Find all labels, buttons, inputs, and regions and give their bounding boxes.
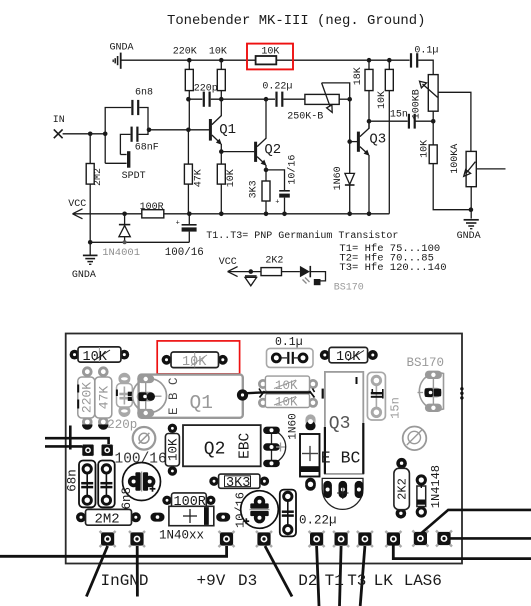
node rail 1N4001 [122, 212, 127, 217]
svg-text:10K: 10K [336, 350, 361, 365]
node gnd 2M2 [88, 240, 93, 245]
svg-text:E B C: E B C [167, 377, 181, 415]
node 220p left [186, 97, 191, 102]
svg-text:15n: 15n [390, 110, 408, 121]
svg-text:2K2: 2K2 [396, 478, 410, 500]
svg-text:68nF: 68nF [135, 143, 159, 154]
PCB text 100/16 [115, 452, 167, 468]
svg-text:GNDA: GNDA [110, 42, 134, 53]
svg-text:GNDA: GNDA [72, 270, 96, 281]
PCB pad small left1 [82, 445, 93, 456]
PCB resistor 3K3 [209, 474, 269, 491]
wire LK lead [393, 545, 531, 559]
wire led branch [228, 271, 300, 273]
resistor 10K (Q1 collector) [209, 46, 227, 99]
svg-text:15n: 15n [389, 397, 403, 419]
PCB resistor 10K r1 [70, 347, 130, 365]
PCB capacitor 68n [65, 461, 95, 508]
svg-text:Q1: Q1 [190, 392, 213, 414]
svg-text:EBC: EBC [238, 432, 254, 458]
svg-text:10/16: 10/16 [287, 155, 299, 185]
svg-text:0.1µ: 0.1µ [275, 336, 303, 349]
svg-text:Q1: Q1 [219, 122, 236, 138]
PCB board outline [66, 334, 462, 564]
PCB transistor BS170 footprint [418, 371, 444, 412]
text T3 [347, 572, 366, 590]
svg-text:220K: 220K [173, 46, 197, 57]
resistor 220K [173, 46, 197, 129]
PCB diode 1N4148 [416, 465, 443, 518]
svg-text:6n8: 6n8 [135, 88, 153, 99]
text LA [404, 572, 424, 590]
ground GNDA right [464, 220, 479, 229]
text LK [374, 572, 394, 590]
svg-text:T3= Hfe 120...140: T3= Hfe 120...140 [339, 262, 446, 274]
node rail 47K [187, 212, 192, 217]
svg-text:BS170: BS170 [407, 356, 445, 370]
transistor Q2 [256, 99, 282, 181]
PCB transistor Q2 footprint [263, 427, 286, 468]
svg-text:1N60: 1N60 [287, 413, 299, 439]
PCB pad T1 [333, 531, 349, 547]
svg-text:SPDT: SPDT [122, 171, 146, 182]
node Q1 collector [219, 97, 224, 102]
wire D3 lead [265, 546, 292, 597]
wire D2 lead [317, 546, 319, 606]
capacitor 0.22u [262, 82, 292, 107]
text transistor note [206, 230, 398, 242]
node Q2 collector [264, 97, 269, 102]
PCB pad GND [129, 531, 145, 547]
svg-text:10K: 10K [226, 169, 237, 187]
diode 1N4001 [102, 214, 140, 259]
node led diode [249, 269, 254, 274]
PCB transistor Q3 footprint [322, 478, 363, 509]
svg-text:BS170: BS170 [334, 283, 364, 294]
node rail 10K [219, 212, 224, 217]
wire VCC rail [73, 213, 390, 215]
PCB trimmer hole right [403, 427, 427, 451]
svg-text:47K: 47K [96, 386, 111, 410]
svg-text:T1..T3= PNP Germanium Transist: T1..T3= PNP Germanium Transistor [206, 230, 398, 242]
svg-text:Q3: Q3 [329, 414, 351, 434]
PCB resistor 10K vertical [165, 424, 180, 476]
PCB pad S6 [436, 531, 452, 547]
supply arrow VCC [68, 199, 86, 219]
ground GNDA bottom-left [83, 242, 98, 264]
capacitor 6n8 [105, 88, 153, 134]
text S6 [423, 572, 442, 590]
svg-text:+: + [275, 198, 279, 206]
svg-text:3K3: 3K3 [248, 180, 259, 198]
node gnd 1N4001 [123, 240, 127, 244]
svg-text:T3: T3 [347, 572, 366, 590]
PCB wire input left top [45, 438, 109, 444]
svg-text:100KB: 100KB [412, 89, 423, 119]
svg-text:1N4148: 1N4148 [429, 465, 443, 508]
svg-text:1N60: 1N60 [333, 166, 344, 190]
PCB pad T3 [357, 531, 373, 547]
node 220K base [186, 128, 191, 133]
ground GNDA top-left [113, 53, 121, 69]
wire input line [63, 133, 106, 135]
potentiometer 100KA [450, 144, 506, 219]
node Q3 collector 15n [367, 119, 372, 124]
resistor 2K2 [261, 256, 283, 276]
capacitor 10/16 electrolytic [266, 155, 299, 214]
PCB transistor Q1 box [133, 375, 249, 418]
node 220K top [187, 58, 192, 63]
node rail 1N60 [347, 212, 352, 217]
resistor 100R [140, 202, 164, 218]
PCB pad small left2 [102, 445, 113, 456]
svg-text:Q2: Q2 [204, 440, 226, 460]
wire LA lead [422, 510, 531, 533]
wire S6 lead [450, 537, 531, 540]
svg-text:68n: 68n [65, 469, 79, 492]
svg-text:47K: 47K [193, 169, 204, 187]
wire T3 lead [360, 546, 365, 606]
PCB resistor 47K [95, 366, 112, 429]
node input 2M2 [88, 132, 93, 137]
PCB transistor Q3 box [321, 372, 364, 474]
svg-text:18K: 18K [353, 67, 364, 85]
PCB border dashes right [460, 387, 463, 400]
input terminal IN [53, 115, 65, 138]
PCB transistor Q2 box [183, 425, 261, 466]
PCB wire left vertical [69, 426, 72, 450]
PCB resistor 220K [77, 366, 95, 429]
wire ground rail [90, 241, 189, 243]
PCB pad LK [385, 531, 401, 547]
PCB capacitor 0.1u [267, 336, 314, 368]
PCB wire input left bottom [45, 445, 88, 448]
node rail 10/16 [282, 212, 287, 217]
svg-text:0.22µ: 0.22µ [299, 514, 337, 528]
svg-text:D2: D2 [298, 572, 317, 590]
svg-text:VCC: VCC [68, 199, 86, 210]
PCB text BS170 [407, 356, 445, 370]
node 15n right [431, 119, 436, 124]
svg-text:VCC: VCC [219, 257, 237, 268]
svg-text:2K2: 2K2 [265, 256, 283, 267]
svg-text:10K: 10K [83, 350, 108, 365]
node 250K-B right [347, 97, 352, 102]
diode 1N60 [333, 142, 355, 214]
svg-text:1N4001: 1N4001 [102, 247, 140, 259]
svg-text:220K: 220K [80, 382, 95, 413]
PCB electrolytic 100/16 [123, 463, 161, 501]
PCB pad In [100, 531, 116, 547]
text D2 [298, 572, 317, 590]
svg-text:10K: 10K [167, 438, 181, 461]
resistor 18K [353, 60, 373, 128]
wire T1 lead [340, 546, 342, 606]
wire GND lead [136, 546, 139, 597]
text InGND [101, 572, 149, 590]
resistor 10K (Q1 emitter) [217, 164, 237, 214]
red highlight box schematic [247, 44, 293, 70]
potentiometer 100KB [412, 75, 471, 152]
PCB pad +9V [219, 531, 235, 547]
text +9V [197, 572, 226, 590]
node Q3 base [347, 139, 352, 144]
capacitor 0.1u [411, 45, 438, 67]
svg-text:3K3: 3K3 [226, 476, 250, 491]
node input caps [103, 132, 108, 137]
node Q2 emitter [264, 168, 269, 173]
resistor 10K horizontal (red boxed) [256, 46, 280, 64]
wire In lead [86, 546, 107, 597]
resistor 10K (to VCC rail) [377, 60, 393, 214]
svg-text:InGND: InGND [101, 572, 149, 590]
svg-text:Tonebender MK-III (neg. Ground: Tonebender MK-III (neg. Ground) [167, 13, 425, 29]
svg-text:D3: D3 [238, 572, 257, 590]
svg-text:2M2: 2M2 [95, 512, 120, 528]
wire top rail [121, 59, 410, 61]
potentiometer 250K-B [287, 83, 350, 142]
PCB resistor 100R [162, 493, 215, 510]
svg-text:6n8: 6n8 [120, 487, 134, 510]
text T1 [325, 572, 344, 590]
PCB trimmer hole left [133, 427, 156, 450]
capacitor 68nF [120, 127, 158, 155]
wire +9V lead [0, 546, 227, 556]
text T1 hfe [339, 243, 440, 255]
text BS170 faded [334, 283, 364, 294]
capacitor 100/16 electrolytic [165, 214, 204, 259]
PCB resistor 2K2 [394, 458, 410, 519]
capacitor 220p [194, 84, 218, 107]
node rail 3K3 [264, 212, 269, 217]
text D3 [238, 572, 257, 590]
capacitor 15n [390, 110, 415, 129]
wire 15n line [369, 120, 433, 122]
switch SPDT [105, 134, 145, 182]
wire Q1 base line [149, 129, 209, 131]
resistor 10K (output divider) [420, 140, 471, 210]
node output gnd [469, 207, 474, 212]
supply arrow VCC led [219, 257, 238, 277]
svg-text:10K: 10K [209, 46, 227, 57]
node 18K top [367, 58, 372, 63]
transistor Q1 [210, 99, 236, 164]
svg-text:+: + [176, 220, 180, 228]
svg-text:10K: 10K [377, 91, 388, 109]
svg-text:Q2: Q2 [264, 142, 281, 158]
PCB resistors 10K 10K stacked [258, 376, 318, 409]
svg-text:E BC: E BC [321, 449, 361, 468]
node caps to base [147, 128, 152, 133]
PCB capacitor 15n [367, 372, 402, 420]
PCB diode 1N60 [287, 413, 319, 491]
node rail Q3 emitter [367, 212, 372, 217]
svg-text:1N40xx: 1N40xx [159, 529, 204, 543]
PCB electrolytic 10/16 [233, 491, 278, 529]
transistor Q3 [350, 121, 387, 214]
wire 220p line [188, 98, 305, 100]
svg-text:100/16: 100/16 [165, 247, 204, 259]
resistor 3K3 [248, 180, 270, 213]
title [167, 13, 425, 29]
svg-text:T1: T1 [325, 572, 344, 590]
svg-text:+9V: +9V [197, 572, 226, 590]
PCB pad LA [412, 531, 428, 547]
PCB pad D2 [309, 531, 325, 547]
PCB red highlight box [157, 341, 239, 374]
svg-text:LK: LK [374, 572, 394, 590]
text T2 hfe [339, 252, 434, 264]
PCB capacitor 0.22u [280, 490, 337, 537]
svg-text:Q3: Q3 [369, 132, 386, 148]
text T3 hfe [339, 262, 446, 274]
PCB capacitor 6n8 [98, 461, 134, 510]
PCB jumper wire 10K pair [247, 389, 315, 398]
PCB capacitor 220p [107, 373, 137, 432]
svg-text:220p: 220p [107, 418, 137, 432]
PCB pad D3 [256, 531, 272, 547]
PCB resistor 10K r2 [162, 352, 228, 370]
svg-text:S6: S6 [423, 572, 442, 590]
node 10K2 top [387, 58, 392, 63]
svg-text:250K-B: 250K-B [287, 111, 323, 122]
resistor 2M2 [86, 134, 104, 243]
PCB diode 1N40xx [151, 506, 231, 542]
resistor 47K [184, 130, 204, 214]
diode vertical (cut) [245, 276, 257, 286]
PCB resistor 2M2 [76, 509, 141, 527]
wire Q1 emitter to Q2 base [221, 151, 254, 153]
LED D [300, 266, 326, 285]
PCB resistor 10K r3 [320, 347, 378, 365]
svg-text:100KA: 100KA [450, 144, 461, 174]
svg-text:GNDA: GNDA [457, 231, 481, 242]
svg-text:IN: IN [53, 115, 65, 126]
node Q1 emitter [219, 149, 224, 154]
svg-text:0.22µ: 0.22µ [262, 82, 292, 93]
wire after 0.1u cap to pot corner [418, 60, 433, 74]
svg-text:LA: LA [404, 572, 424, 590]
node 10K top [219, 58, 224, 63]
